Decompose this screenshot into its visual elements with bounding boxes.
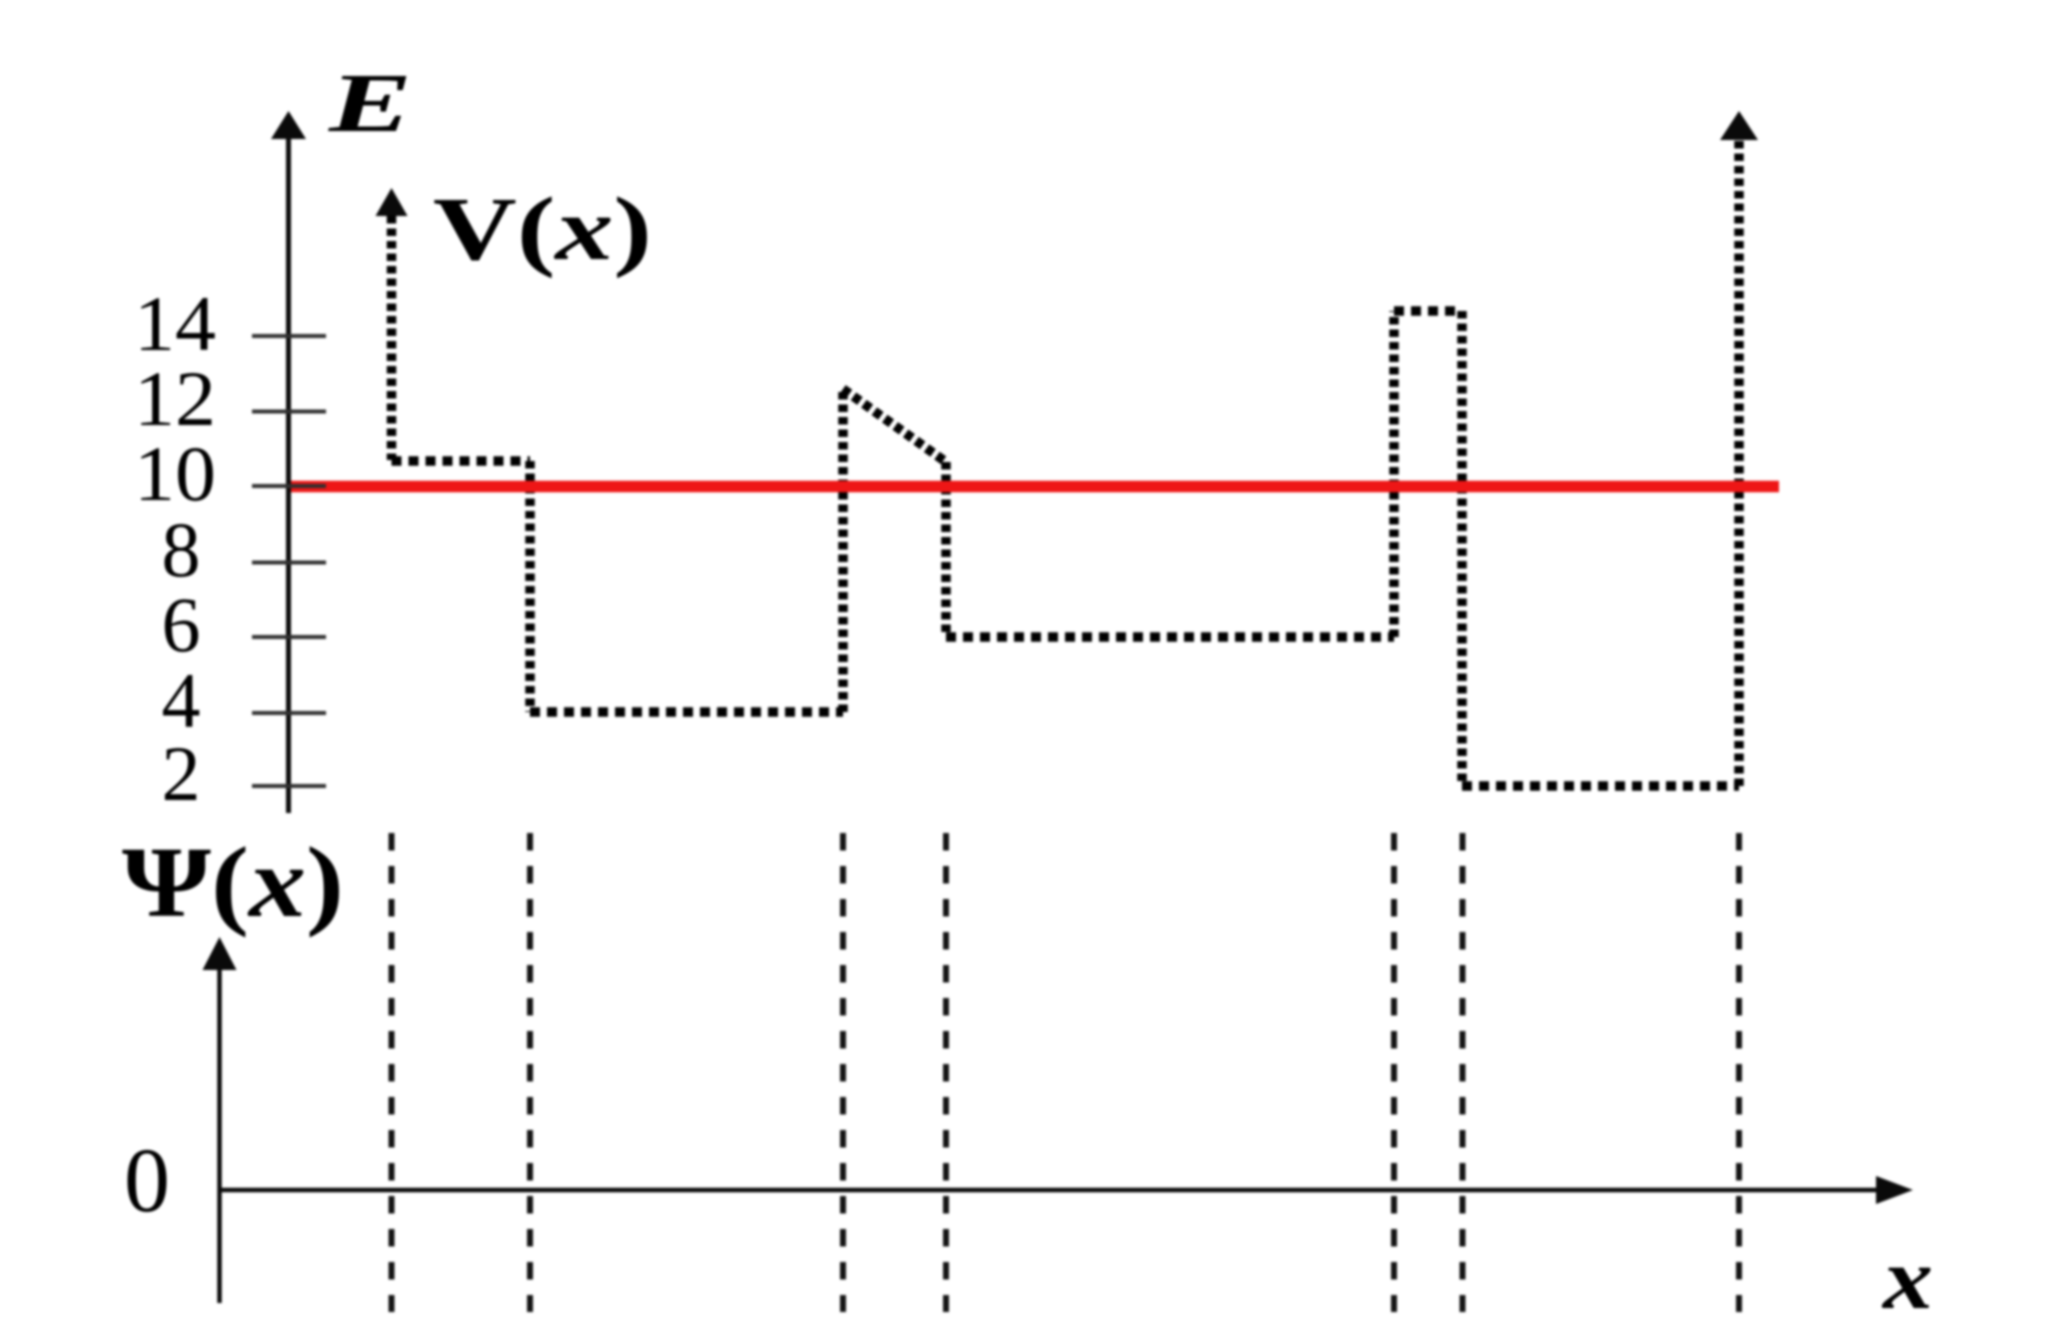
svg-text:x: x [1881,1231,1933,1322]
svg-text:8: 8 [162,506,201,593]
svg-text:10: 10 [134,430,216,517]
svg-text:12: 12 [134,355,216,442]
svg-text:14: 14 [134,280,216,367]
svg-text:V(x): V(x) [433,180,652,279]
svg-text:6: 6 [162,581,201,668]
svg-text:2: 2 [162,730,201,817]
svg-text:0: 0 [124,1129,170,1231]
svg-text:E: E [328,57,412,150]
svg-text:Ψ(x): Ψ(x) [122,826,344,938]
